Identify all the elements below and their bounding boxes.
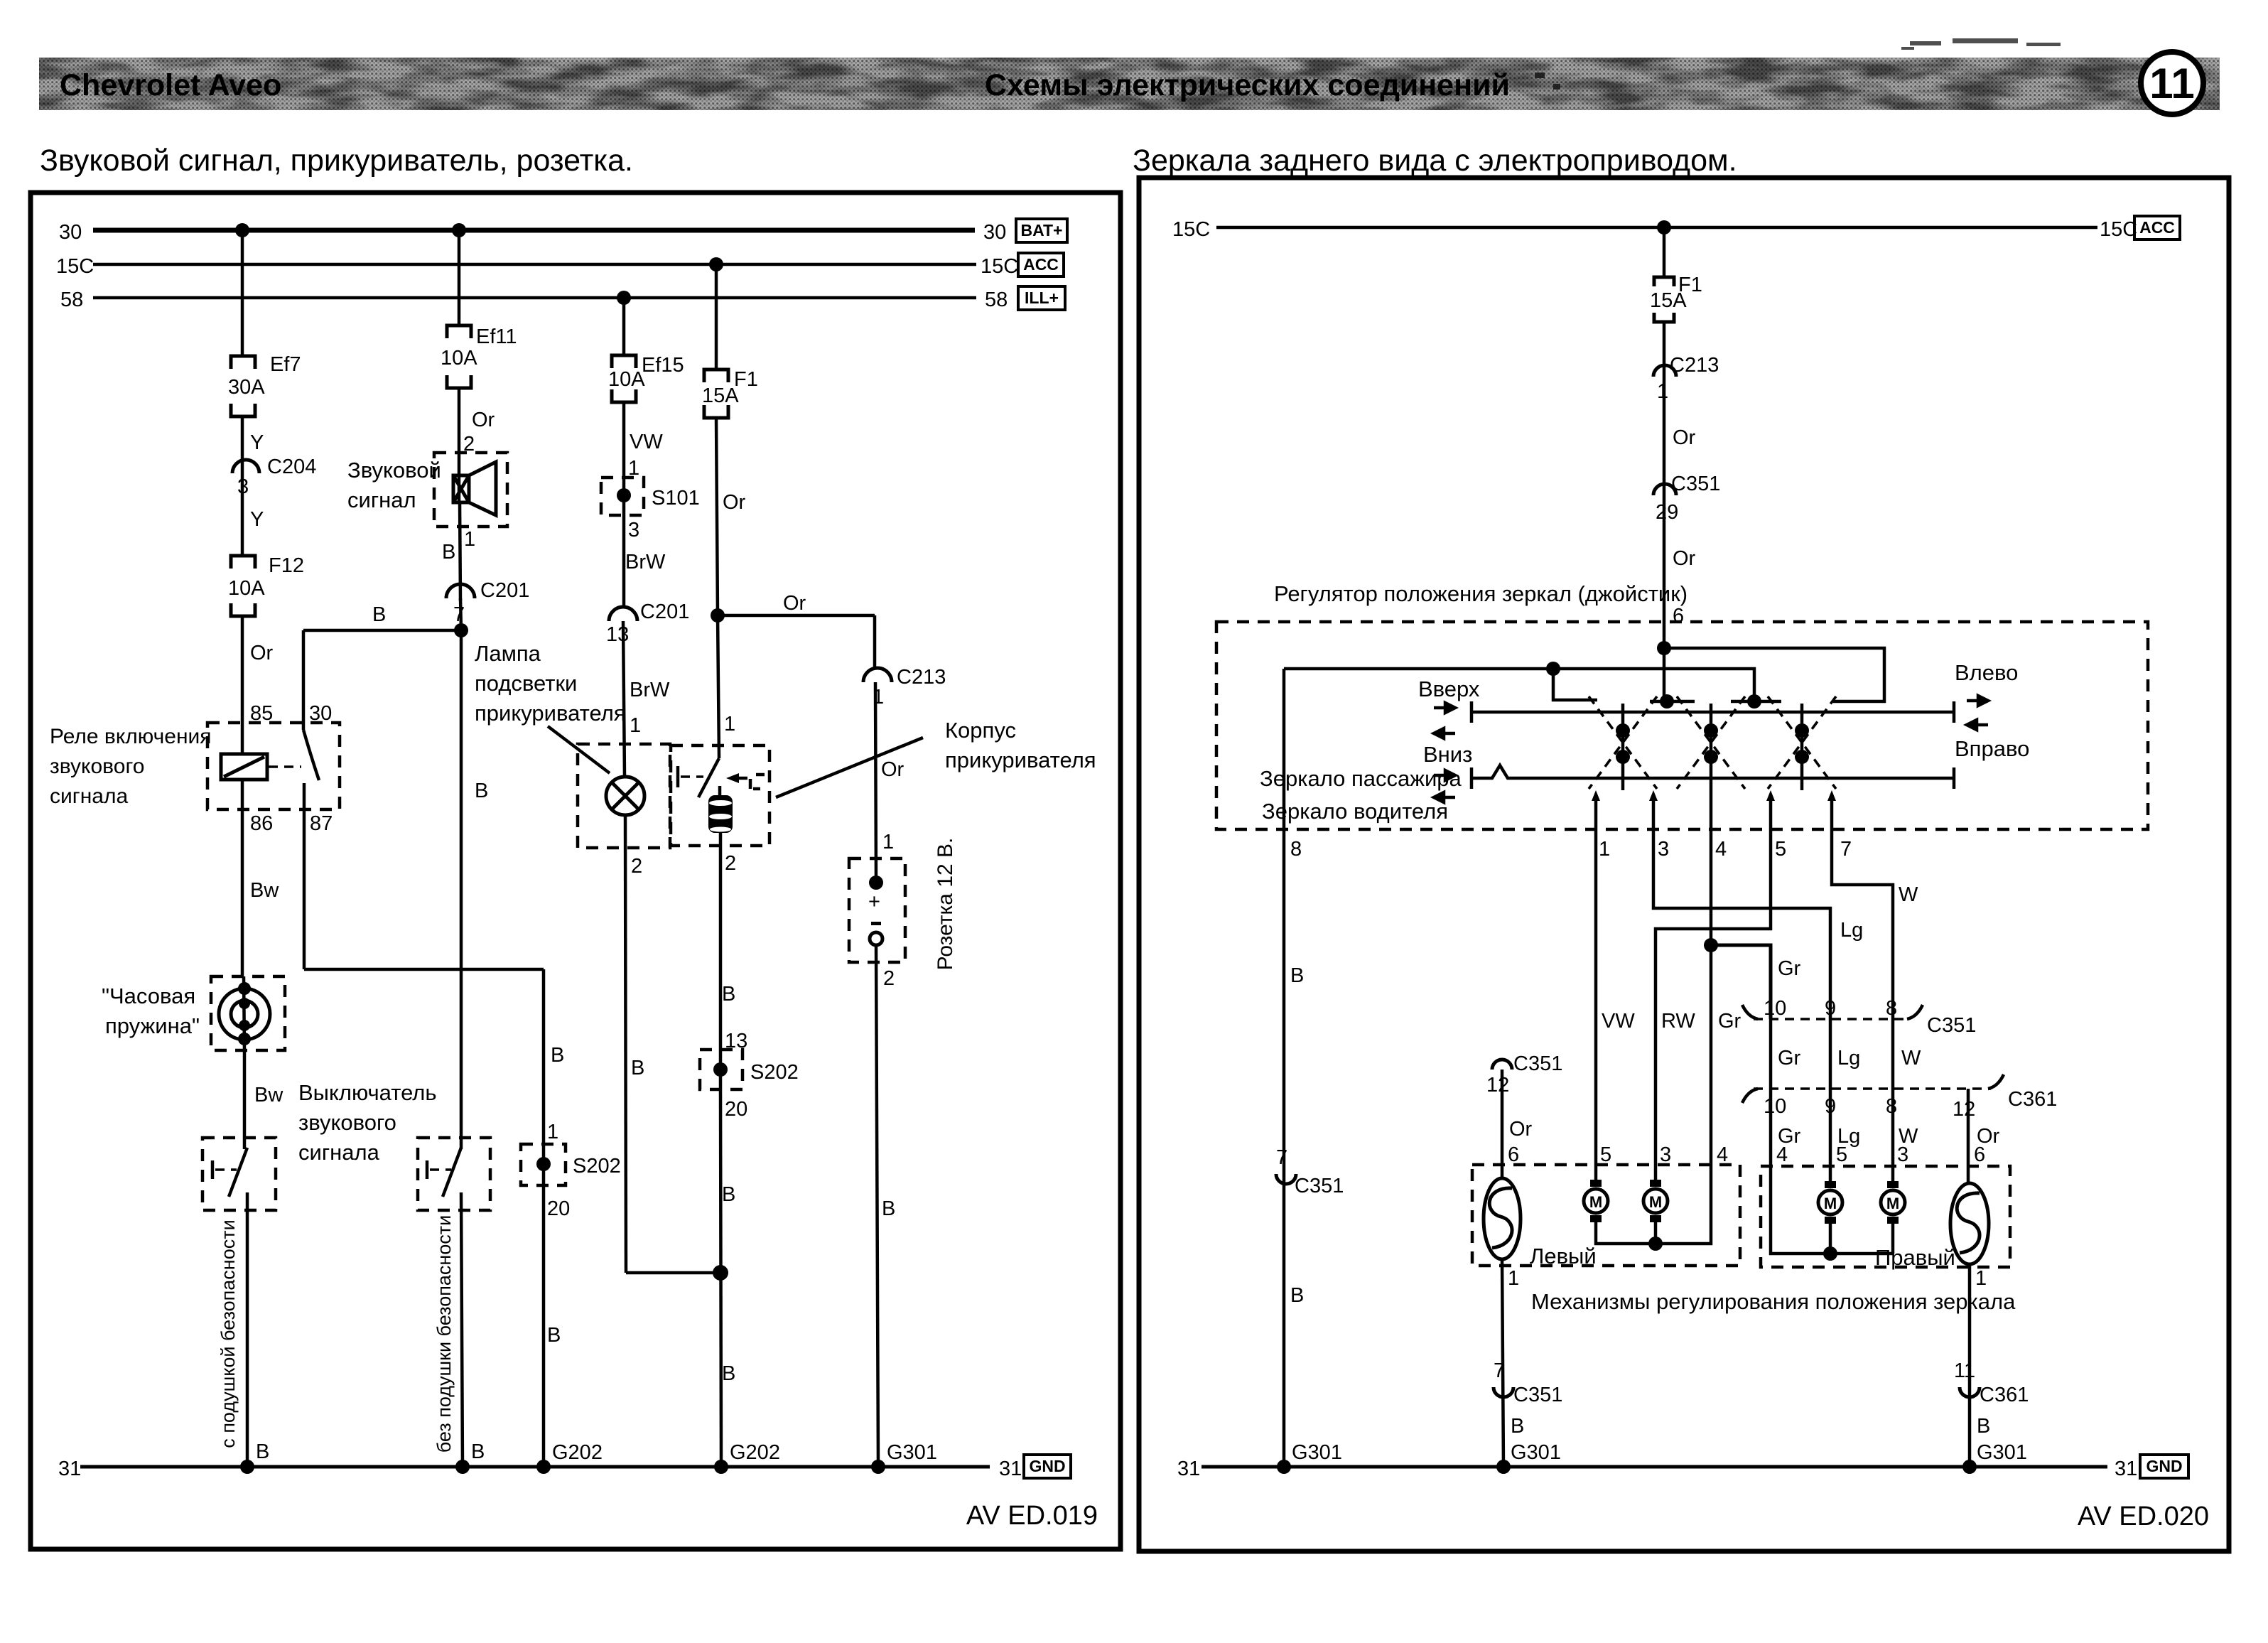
svg-text:3: 3 xyxy=(1897,1143,1908,1166)
wire B S202 to ground xyxy=(720,1089,721,1467)
svg-text:1: 1 xyxy=(1508,1267,1519,1290)
svg-text:B: B xyxy=(256,1440,269,1463)
wire switch1 lower xyxy=(246,1192,249,1467)
socket plus contact xyxy=(869,876,883,890)
svg-text:Or: Or xyxy=(783,592,806,615)
connector C351 row dashed xyxy=(1742,1005,1923,1019)
joystick dashed box xyxy=(1216,622,2148,829)
svg-text:12: 12 xyxy=(1953,1098,1975,1121)
horn switch 2 contact xyxy=(427,1148,461,1197)
wire right motor3 bottom stub xyxy=(1891,1224,1895,1254)
bus wire 58 xyxy=(93,296,976,300)
svg-text:W: W xyxy=(1901,1047,1921,1070)
svg-text:Схемы электрических соединений: Схемы электрических соединений xyxy=(985,68,1510,102)
svg-text:15C: 15C xyxy=(1172,218,1210,241)
net box ACC xyxy=(1018,253,1064,276)
svg-text:B: B xyxy=(551,1044,564,1067)
svg-text:GND: GND xyxy=(1029,1457,1065,1475)
svg-text:ACC: ACC xyxy=(2139,218,2175,237)
svg-text:"Часовая: "Часовая xyxy=(102,984,195,1008)
svg-text:Or: Or xyxy=(881,758,904,781)
svg-text:20: 20 xyxy=(725,1098,747,1121)
wire pin3 to Lg column xyxy=(1653,796,1830,1019)
wire Bw clock spring to horn switch xyxy=(243,1050,247,1149)
svg-text:B: B xyxy=(722,1362,735,1385)
wire pin5 RW to motor 3 xyxy=(1656,796,1771,1185)
junction on bus 30 col B xyxy=(452,223,466,237)
svg-text:15C: 15C xyxy=(981,255,1018,278)
wire Lg between connectors xyxy=(1829,1019,1832,1089)
wire 30 bus to fuse Ef11 xyxy=(458,230,461,325)
svg-text:Or: Or xyxy=(250,642,274,664)
svg-text:без подушки безопасности: без подушки безопасности xyxy=(433,1215,455,1453)
wire Gr between connectors xyxy=(1769,1019,1773,1089)
relay coil xyxy=(221,754,267,780)
horn symbol xyxy=(453,462,496,515)
svg-text:Chevrolet Aveo: Chevrolet Aveo xyxy=(60,68,281,102)
wire Or to right mirror pin6 xyxy=(1967,1089,1970,1183)
right mirror dashed box xyxy=(1761,1166,2010,1267)
svg-text:Выключатель: Выключатель xyxy=(298,1080,437,1105)
svg-text:13: 13 xyxy=(606,623,629,646)
svg-text:B: B xyxy=(882,1197,895,1220)
svg-text:31: 31 xyxy=(2115,1458,2137,1480)
horn dashed box xyxy=(434,453,507,527)
bus wire 15C xyxy=(93,263,976,266)
relay switch arm pin30 to 87 xyxy=(303,730,319,780)
svg-text:15C: 15C xyxy=(56,255,94,278)
wire Or C351-12 to left mirror xyxy=(1501,1070,1504,1178)
svg-text:прикуривателя: прикуривателя xyxy=(945,748,1096,772)
svg-text:29: 29 xyxy=(1656,501,1678,524)
svg-text:86: 86 xyxy=(250,812,273,835)
cigarette lighter dashed box xyxy=(671,745,769,846)
wire pin1 VW to motor 5 xyxy=(1594,796,1598,1185)
svg-text:+: + xyxy=(868,890,880,913)
svg-text:8: 8 xyxy=(1290,838,1302,861)
header gray bar xyxy=(39,58,2220,110)
svg-text:7: 7 xyxy=(1276,1146,1287,1169)
relay pin 86 wire xyxy=(241,780,244,976)
node bar A xyxy=(1660,694,1674,709)
svg-text:Вверх: Вверх xyxy=(1418,677,1480,701)
svg-text:Зеркало пассажира: Зеркало пассажира xyxy=(1260,766,1462,791)
svg-text:B: B xyxy=(547,1324,561,1347)
wire lamp column to lighter column junction xyxy=(626,1271,720,1275)
svg-text:C351: C351 xyxy=(1927,1014,1976,1037)
svg-text:Bw: Bw xyxy=(254,1084,283,1106)
svg-text:C361: C361 xyxy=(1980,1384,2029,1406)
wire right mirror common xyxy=(1771,1166,1893,1254)
svg-text:Ef15: Ef15 xyxy=(642,354,684,377)
svg-text:31: 31 xyxy=(58,1458,81,1480)
svg-text:Y: Y xyxy=(250,508,264,531)
svg-text:30: 30 xyxy=(309,702,332,725)
svg-text:BrW: BrW xyxy=(630,679,670,701)
svg-text:5: 5 xyxy=(1775,838,1786,861)
svg-text:3: 3 xyxy=(1658,838,1669,861)
junction on bus 30 col A xyxy=(235,223,249,237)
fuse Ef15 xyxy=(612,355,636,402)
contact bar over X2 left xyxy=(1650,700,1695,704)
relay pin 30 wire xyxy=(302,630,306,730)
svg-text:B: B xyxy=(1290,964,1304,987)
joystick leg pin 3 arrow xyxy=(1649,790,1658,801)
connector C213 pin 1 right xyxy=(1653,365,1676,377)
horn switch 2 dashed box (no airbag) xyxy=(418,1138,490,1210)
svg-text:AV ED.020: AV ED.020 xyxy=(2078,1502,2209,1531)
callout line to lighter body xyxy=(776,738,923,797)
connector C204 pin 3 xyxy=(232,460,259,473)
connector C361 row dashed xyxy=(1742,1074,2004,1103)
svg-text:Звуковой сигнал, прикуриватель: Звуковой сигнал, прикуриватель, розетка. xyxy=(40,144,633,178)
wire heater stub xyxy=(718,786,722,795)
net box ACC right panel xyxy=(2134,216,2180,239)
wire Gr branch to connector xyxy=(1711,945,1771,1019)
header noise speckles top right xyxy=(1901,38,2061,50)
svg-text:звукового: звукового xyxy=(50,755,144,778)
relay pin 87 wire xyxy=(303,783,306,969)
wire Gr to right mirror pin4 xyxy=(1769,1089,1773,1166)
junction on bus 15C col D xyxy=(709,257,723,271)
joystick leg pin 1 arrow xyxy=(1592,790,1600,801)
contact bar over X2 right xyxy=(1731,700,1781,704)
motor M right mirror pin5 xyxy=(1818,1181,1842,1224)
svg-text:RW: RW xyxy=(1661,1010,1695,1033)
wire Or F1 to junction xyxy=(716,418,718,615)
wire right mirror coil to C361 pin11 xyxy=(1968,1264,1972,1467)
svg-text:Gr: Gr xyxy=(1778,1047,1801,1070)
svg-text:B: B xyxy=(1290,1284,1304,1307)
svg-text:Корпус: Корпус xyxy=(945,718,1016,743)
svg-text:M: M xyxy=(1649,1193,1662,1211)
page number circle 11 xyxy=(2141,52,2203,114)
wire motor3 bottom stub xyxy=(1654,1222,1658,1244)
svg-text:C213: C213 xyxy=(1670,354,1719,377)
joystick bus bar B with kink xyxy=(1471,765,1954,789)
svg-text:10: 10 xyxy=(1764,997,1786,1020)
svg-text:31: 31 xyxy=(999,1458,1022,1480)
wire 58 bus to fuse Ef15 xyxy=(622,298,626,355)
svg-text:с подушкой безопасности: с подушкой безопасности xyxy=(217,1219,239,1448)
lamp symbol xyxy=(606,777,644,815)
wire Or C351 to joystick xyxy=(1663,495,1666,648)
svg-text:AV ED.019: AV ED.019 xyxy=(966,1501,1098,1531)
svg-text:BrW: BrW xyxy=(625,551,666,573)
svg-text:Y: Y xyxy=(250,431,264,454)
svg-text:Or: Or xyxy=(1673,426,1696,449)
wire B lighter to S202 xyxy=(719,833,723,1089)
svg-text:9: 9 xyxy=(1825,997,1836,1020)
svg-text:F12: F12 xyxy=(269,554,304,577)
wire Or junction to lighter xyxy=(718,615,719,758)
node left mirror common xyxy=(1648,1237,1663,1251)
svg-text:C361: C361 xyxy=(2008,1088,2057,1111)
socket 12V dashed box xyxy=(849,858,905,962)
node B junction horn wire xyxy=(454,623,468,637)
svg-text:31: 31 xyxy=(1177,1458,1200,1480)
wire Or C213 to C351 xyxy=(1663,377,1666,495)
svg-text:1: 1 xyxy=(1975,1267,1987,1290)
wire F1 to C213 xyxy=(1663,322,1666,377)
svg-text:58: 58 xyxy=(985,289,1008,311)
right mirror heater coil xyxy=(1950,1183,1989,1264)
wire BrW S101 to C201 xyxy=(622,515,626,607)
lighter switch contact xyxy=(678,758,719,797)
svg-text:30: 30 xyxy=(59,221,82,244)
svg-text:1: 1 xyxy=(547,1121,558,1143)
wire Lg to right motor 5 xyxy=(1829,1089,1832,1184)
junction on bus 58 col C xyxy=(617,291,631,305)
svg-text:ACC: ACC xyxy=(1023,255,1059,274)
wire 30 bus to fuse Ef7 xyxy=(241,230,244,355)
wire Or to C213 xyxy=(873,615,877,668)
svg-text:B: B xyxy=(722,983,735,1006)
svg-text:Or: Or xyxy=(472,409,495,431)
svg-text:M: M xyxy=(1589,1193,1602,1211)
svg-text:подсветки: подсветки xyxy=(475,671,577,696)
svg-text:8: 8 xyxy=(1886,997,1897,1020)
rocker contact X2 xyxy=(1677,696,1745,790)
svg-text:10A: 10A xyxy=(228,577,265,600)
svg-text:Lg: Lg xyxy=(1840,919,1863,942)
wire B horn to C201 xyxy=(460,502,460,600)
svg-text:7: 7 xyxy=(1840,838,1852,861)
svg-text:сигнал: сигнал xyxy=(347,487,416,512)
node Or junction xyxy=(711,608,725,623)
net box BAT+ xyxy=(1016,219,1067,242)
svg-text:Ef7: Ef7 xyxy=(270,353,301,376)
wire B socket to ground xyxy=(876,945,878,1467)
wire C201 to junction xyxy=(460,598,461,630)
lighter arrow xyxy=(726,773,739,783)
svg-text:сигнала: сигнала xyxy=(50,785,128,808)
node pin6 junction xyxy=(1657,641,1671,655)
node 15C junction xyxy=(1657,220,1671,235)
splice S202 (lighter col) dashed box xyxy=(700,1050,742,1089)
node right mirror common xyxy=(1823,1246,1837,1261)
joystick leg pin 7 arrow xyxy=(1827,790,1836,801)
fuse Ef11 xyxy=(447,325,471,388)
wire pin4 Gr down xyxy=(1710,790,1713,1165)
connector C201 pin 7 xyxy=(446,584,475,598)
svg-text:Ef11: Ef11 xyxy=(476,325,517,348)
svg-text:C351: C351 xyxy=(1513,1052,1562,1075)
fuse F1 right panel xyxy=(1654,277,1674,322)
svg-text:Or: Or xyxy=(1509,1118,1533,1141)
net box GND left xyxy=(1024,1455,1071,1478)
left mirror heater coil xyxy=(1484,1178,1521,1259)
connector C351 pin 29 xyxy=(1653,484,1676,495)
svg-text:G202: G202 xyxy=(552,1441,603,1464)
wire relay87 horizontal to S202 column xyxy=(304,968,544,971)
svg-text:S202: S202 xyxy=(573,1155,621,1178)
svg-text:G202: G202 xyxy=(730,1441,780,1464)
svg-text:3: 3 xyxy=(628,519,639,542)
left panel frame xyxy=(31,193,1120,1549)
rocker contact X3 xyxy=(1768,696,1836,790)
svg-text:Регулятор положения зеркал (дж: Регулятор положения зеркал (джойстик) xyxy=(1274,581,1687,606)
svg-text:4: 4 xyxy=(1776,1143,1788,1166)
svg-text:11: 11 xyxy=(2149,60,2194,107)
connector C201 pin 13 xyxy=(609,607,637,621)
svg-text:B: B xyxy=(442,541,455,564)
right panel frame xyxy=(1139,178,2229,1551)
joystick leg pin 5 arrow xyxy=(1766,790,1775,801)
svg-text:Or: Or xyxy=(1673,547,1696,570)
node lamp-lighter junction xyxy=(713,1265,728,1281)
svg-text:Зеркало водителя: Зеркало водителя xyxy=(1262,799,1448,824)
horn switch 1 contact xyxy=(212,1148,247,1197)
svg-text:15A: 15A xyxy=(1650,289,1687,312)
svg-text:1: 1 xyxy=(464,528,475,551)
svg-text:B: B xyxy=(475,780,488,802)
svg-text:Bw: Bw xyxy=(250,879,279,902)
svg-text:Влево: Влево xyxy=(1955,660,2018,685)
svg-text:Вниз: Вниз xyxy=(1423,742,1472,767)
wire W to right motor 3 xyxy=(1891,1089,1895,1184)
svg-text:W: W xyxy=(1899,883,1918,906)
motor M left mirror pin5 xyxy=(1584,1180,1608,1222)
svg-text:G301: G301 xyxy=(887,1441,937,1464)
svg-text:B: B xyxy=(631,1057,644,1079)
svg-text:6: 6 xyxy=(1673,605,1684,627)
wire feed branch to X1 xyxy=(1553,669,1597,700)
wire BrW C201 to lamp xyxy=(623,621,625,777)
svg-text:10A: 10A xyxy=(608,368,645,391)
svg-text:4: 4 xyxy=(1717,1143,1728,1166)
svg-text:B: B xyxy=(471,1440,485,1463)
svg-text:10: 10 xyxy=(1764,1095,1786,1118)
relay link dashed xyxy=(269,765,301,768)
wire VW Ef15 to S101 xyxy=(622,402,626,515)
svg-text:30: 30 xyxy=(983,221,1006,244)
svg-text:6: 6 xyxy=(1974,1143,1985,1166)
svg-text:5: 5 xyxy=(1836,1143,1847,1166)
wire Or branch to socket column xyxy=(718,614,875,618)
svg-text:Левый: Левый xyxy=(1530,1244,1597,1268)
svg-text:2: 2 xyxy=(725,852,736,875)
svg-text:Звуковой: Звуковой xyxy=(347,458,441,483)
svg-text:10A: 10A xyxy=(441,347,477,370)
svg-text:C351: C351 xyxy=(1513,1384,1562,1406)
wire left B column pin 8 xyxy=(1282,669,1286,1467)
svg-text:S202: S202 xyxy=(750,1061,799,1084)
svg-text:G301: G301 xyxy=(1977,1441,2027,1464)
wire 15C bus to fuse F1 xyxy=(715,264,718,370)
svg-text:B: B xyxy=(372,603,386,626)
node S202 lighter col xyxy=(713,1062,728,1077)
joystick bus bar A xyxy=(1471,701,1954,723)
clock spring symbol xyxy=(219,989,270,1040)
svg-text:Зеркала заднего вида с электро: Зеркала заднего вида с электроприводом. xyxy=(1133,144,1737,178)
svg-text:C201: C201 xyxy=(480,579,529,602)
svg-text:15C: 15C xyxy=(2100,218,2137,241)
svg-text:C351: C351 xyxy=(1671,473,1720,495)
wire left mirror coil to C351 pin7 xyxy=(1502,1259,1503,1467)
svg-text:C201: C201 xyxy=(640,600,689,623)
wire 15C to fuse F1 xyxy=(1663,227,1666,277)
svg-text:VW: VW xyxy=(630,431,663,453)
svg-text:Розетка 12 В.: Розетка 12 В. xyxy=(934,838,957,971)
svg-text:M: M xyxy=(1886,1195,1899,1212)
svg-text:G301: G301 xyxy=(1511,1441,1561,1464)
svg-text:4: 4 xyxy=(1715,838,1727,861)
wire switch2 lower xyxy=(461,1192,463,1467)
wire Y fuse Ef7 to C204 xyxy=(241,416,244,480)
svg-text:15A: 15A xyxy=(702,384,739,407)
svg-text:Lg: Lg xyxy=(1837,1047,1860,1070)
net box GND right xyxy=(2140,1455,2188,1478)
splice S202 (col3) dashed box xyxy=(521,1144,566,1185)
svg-text:12: 12 xyxy=(1486,1074,1509,1097)
rocker contact X1 xyxy=(1589,696,1657,790)
svg-text:G301: G301 xyxy=(1292,1441,1342,1464)
clock spring dashed box xyxy=(211,976,285,1050)
svg-text:C204: C204 xyxy=(267,456,316,478)
svg-text:VW: VW xyxy=(1602,1010,1635,1033)
svg-text:1: 1 xyxy=(724,713,735,736)
wire W between connectors xyxy=(1891,1019,1895,1089)
wire Or Ef11 to horn xyxy=(458,388,461,480)
wire inside horn box xyxy=(458,480,461,502)
node bar B xyxy=(1747,694,1761,709)
svg-text:7: 7 xyxy=(1494,1359,1505,1382)
svg-text:B: B xyxy=(722,1183,735,1206)
motor M left mirror pin3 xyxy=(1643,1180,1668,1222)
ground nodes left panel xyxy=(240,1460,254,1474)
svg-text:Механизмы регулирования положе: Механизмы регулирования положения зеркал… xyxy=(1531,1289,2016,1314)
node S202 col3 xyxy=(536,1157,551,1171)
lighter heater element xyxy=(708,795,733,833)
connector C213 pin 1 xyxy=(863,668,892,682)
net box ILL+ xyxy=(1018,286,1065,310)
lamp dashed box xyxy=(578,744,670,848)
wire B junction down to switch 2 xyxy=(460,630,463,1149)
svg-text:C351: C351 xyxy=(1295,1175,1344,1197)
wire Or F12 to relay pin 85 xyxy=(241,616,244,755)
wire feed right at y912 xyxy=(1664,648,1884,701)
svg-text:1: 1 xyxy=(1599,838,1610,861)
svg-text:20: 20 xyxy=(547,1197,570,1220)
wire S202 column down xyxy=(542,969,546,1467)
svg-text:6: 6 xyxy=(1508,1143,1519,1166)
svg-text:Вправо: Вправо xyxy=(1955,736,2029,761)
wire left mirror common xyxy=(1596,1165,1711,1244)
svg-text:Gr: Gr xyxy=(1778,957,1801,980)
bus wire 15C right panel xyxy=(1216,226,2097,230)
svg-text:Gr: Gr xyxy=(1718,1010,1741,1033)
svg-text:B: B xyxy=(1977,1415,1990,1438)
svg-text:87: 87 xyxy=(310,812,333,835)
relay K horn dashed box xyxy=(207,723,340,809)
wire lamp to corner xyxy=(625,815,626,1273)
wire pin6 down to bar xyxy=(1663,648,1666,701)
svg-text:11: 11 xyxy=(1954,1359,1975,1382)
svg-text:прикуривателя: прикуривателя xyxy=(475,701,626,726)
svg-text:пружина": пружина" xyxy=(105,1013,200,1038)
svg-text:1: 1 xyxy=(630,714,641,737)
svg-text:S101: S101 xyxy=(652,487,700,510)
svg-text:звукового: звукового xyxy=(298,1110,396,1135)
svg-text:B: B xyxy=(1511,1415,1524,1438)
svg-text:Правый: Правый xyxy=(1875,1245,1955,1270)
wire right motor5 bottom stub xyxy=(1829,1224,1832,1254)
svg-text:58: 58 xyxy=(60,289,83,311)
wire through clock spring xyxy=(244,976,244,1050)
wire Y C204 to fuse F12 xyxy=(241,480,244,556)
svg-text:сигнала: сигнала xyxy=(298,1140,380,1165)
